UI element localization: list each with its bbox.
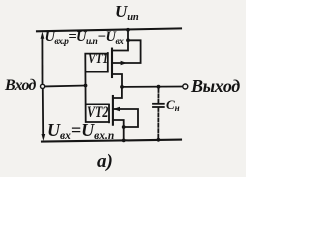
- designator VT1: [88, 52, 108, 67]
- VT2 substrate arrow (points left, n-channel): [113, 107, 120, 111]
- junction dot: VT2 substrate joins source lead: [122, 125, 126, 129]
- capacitor Cн bottom dashed lead: [157, 108, 159, 140]
- capacitor Cн top dashed lead: [157, 89, 159, 103]
- port label Выход (output): [191, 77, 240, 95]
- junction dot: VT1 drain at supply rail: [126, 28, 130, 32]
- value label Cн (load capacitance): [166, 98, 180, 111]
- transistor VT2 gate electrode: [108, 105, 110, 123]
- designator box around VT2 (top edge): [86, 103, 109, 105]
- port label Вход (input): [5, 78, 36, 94]
- wire: input terminal to gate branch junction: [45, 85, 85, 88]
- transistor VT1 gate electrode: [107, 53, 109, 72]
- junction dot: gate branch node: [84, 84, 88, 88]
- VT1 substrate arrow (points right, p-channel): [121, 61, 127, 66]
- junction dot: output node: [120, 85, 124, 89]
- voltage arrow: Uвх.p from input up to supply rail: [41, 32, 45, 84]
- wire: bottom common rail: [42, 140, 181, 142]
- capacitor Cн plates: [153, 104, 164, 107]
- designator box around VT1 (bottom edge): [86, 71, 108, 73]
- voltage arrow: Uвх from input down to bottom rail: [42, 89, 46, 141]
- wire: branch down and right to VT2 gate: [86, 86, 109, 123]
- wire: VT2 substrate connection loop: [113, 109, 138, 127]
- input terminal circle (Вход): [41, 84, 45, 88]
- caption а): [97, 152, 113, 171]
- junction dot: VT2 source at bottom rail: [122, 139, 126, 143]
- junction dot: capacitor top tap on output wire: [157, 85, 161, 89]
- junction dot: VT1 substrate tap on drain lead: [126, 38, 130, 42]
- junction dot: capacitor at bottom rail: [157, 138, 161, 142]
- wire: VT2 bottom (source) lead down to bottom rail: [113, 120, 124, 140]
- wire: +supply rail Uип: [37, 28, 181, 31]
- wire: branch up and right to VT1 gate: [85, 54, 107, 86]
- transistor VT2 channel bar: [112, 96, 114, 125]
- output terminal circle (Выход): [183, 84, 188, 89]
- wire: VT1 bottom (source) lead down to output node: [112, 74, 122, 87]
- wire: VT2 top (drain) lead up to output node: [113, 87, 122, 98]
- formula label Uвх = Uвх.n: [47, 121, 114, 140]
- wire: VT1 top (drain) lead up to supply rail: [112, 30, 128, 50]
- designator VT2: [87, 105, 108, 121]
- wire: output node to output terminal: [122, 86, 182, 88]
- wire: VT1 substrate connection loop: [112, 40, 141, 63]
- transistor VT1 channel bar: [111, 49, 113, 77]
- formula label Uвх.p = Uи.п − Uвх: [45, 30, 124, 45]
- net label Uип (supply): [115, 3, 138, 21]
